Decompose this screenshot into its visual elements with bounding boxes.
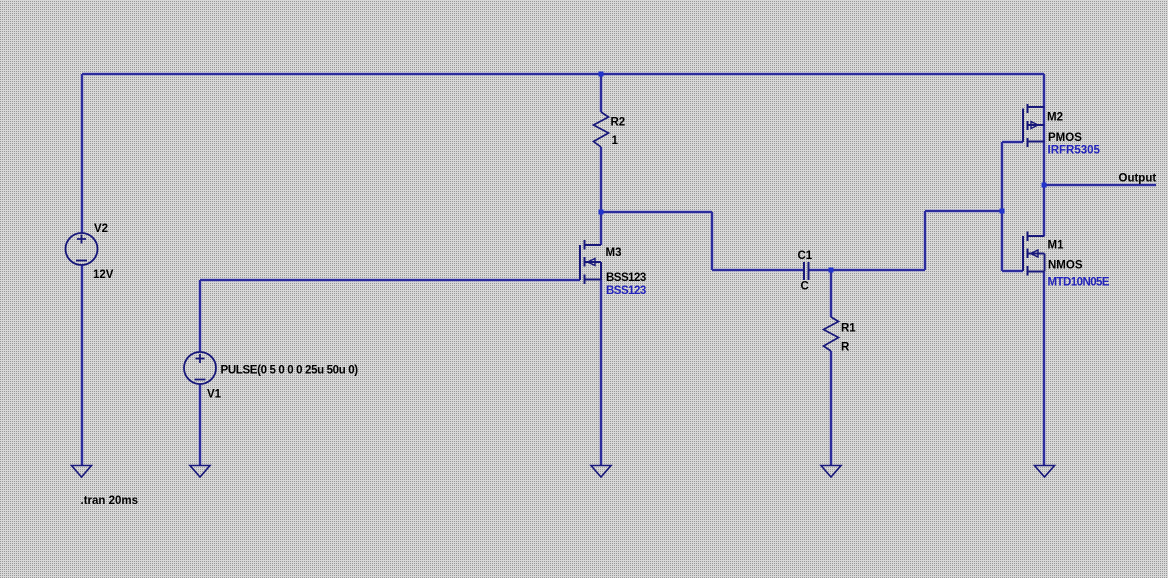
wire gate bus vertical: [1001, 142, 1003, 271]
wire V1 bottom to ground: [199, 384, 201, 466]
wire top bus: [82, 73, 1044, 75]
wire M3 source down to ground: [600, 280, 602, 466]
voltage source V1: [184, 352, 216, 384]
wire R2 top stub: [600, 74, 602, 112]
svg-text:BSS123: BSS123: [606, 285, 646, 297]
transistor M2 (PMOS IRFR5305): [1023, 104, 1045, 147]
wire R1 top stub: [830, 270, 832, 317]
svg-text:BSS123: BSS123: [606, 272, 646, 284]
junction node at R2 bottom / M3 drain: [599, 210, 604, 215]
wire M2 source up to bus, through to output node: [1043, 74, 1045, 185]
transistor M3 (NMOS BSS123): [580, 240, 601, 284]
svg-text:M1: M1: [1048, 240, 1065, 252]
wire left V2 branch lower: [81, 265, 83, 466]
voltage source V2: [66, 233, 98, 265]
svg-text:Output: Output: [1119, 173, 1157, 185]
svg-text:IRFR5305: IRFR5305: [1048, 145, 1101, 157]
svg-text:PMOS: PMOS: [1048, 132, 1082, 144]
ground (M3 source): [591, 466, 611, 478]
svg-text:V2: V2: [94, 223, 108, 235]
svg-text:R2: R2: [611, 116, 626, 128]
svg-text:12V: 12V: [93, 269, 114, 281]
wire output: [1044, 184, 1156, 186]
wire R1 bottom to ground: [830, 351, 832, 466]
wire V1 top stub: [199, 280, 201, 352]
wire M2 gate stub: [1002, 141, 1023, 143]
svg-text:V1: V1: [207, 389, 222, 401]
wire R1 node to gate bus: [831, 211, 1002, 270]
wire M1 gate stub: [1002, 270, 1023, 272]
svg-text:MTD10N05E: MTD10N05E: [1048, 277, 1110, 289]
svg-text:R: R: [841, 342, 850, 354]
svg-text:1: 1: [612, 135, 619, 147]
junction node at gate bus: [1000, 209, 1005, 214]
ground (V1): [190, 466, 210, 478]
junction node at C1/R1: [829, 268, 834, 273]
ground (R1): [821, 466, 841, 478]
svg-text:M2: M2: [1047, 112, 1063, 124]
wire C1 right to R1 node: [809, 269, 831, 271]
junction node at R2 top: [599, 72, 604, 77]
capacitor C1: [804, 262, 809, 280]
svg-text:PULSE(0 5 0 0 0 25u 50u 0): PULSE(0 5 0 0 0 25u 50u 0): [221, 364, 359, 376]
wire R2 bottom to M3 drain: [600, 147, 602, 245]
svg-text:M3: M3: [606, 247, 622, 259]
transistor M1 (NMOS MTD10N05E): [1023, 232, 1045, 276]
svg-text:.tran 20ms: .tran 20ms: [81, 495, 139, 507]
wire left V2 branch upper: [81, 74, 83, 233]
junction node at output: [1042, 183, 1047, 188]
wire M1 source down to ground: [1043, 272, 1045, 466]
wire output node to M1 drain: [1043, 185, 1045, 236]
svg-text:C1: C1: [798, 250, 813, 262]
wire node to C1 left: [601, 212, 803, 270]
resistor R1: [824, 317, 839, 351]
ground (V2): [72, 466, 92, 478]
svg-text:C: C: [801, 281, 809, 293]
wire M3 gate from V1: [200, 279, 580, 281]
svg-text:R1: R1: [841, 323, 856, 335]
ground (M1 source): [1035, 466, 1055, 478]
resistor R2: [594, 112, 609, 147]
svg-text:NMOS: NMOS: [1048, 260, 1083, 272]
